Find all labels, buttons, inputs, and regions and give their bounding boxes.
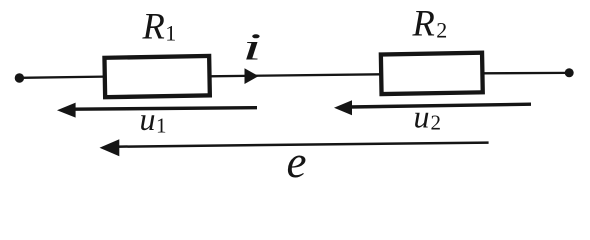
svg-text:R1: R1 xyxy=(142,6,177,47)
node A (left terminal dot) xyxy=(15,73,24,82)
wire (R1 to R2 with current direction) xyxy=(209,74,380,76)
resistor R2 xyxy=(381,53,483,94)
wire (R2 to right terminal) xyxy=(482,72,567,75)
svg-text:u2: u2 xyxy=(414,98,442,134)
svg-text:u1: u1 xyxy=(140,101,167,137)
voltage arrow u2 (head) xyxy=(334,100,352,115)
resistor R1 xyxy=(104,56,209,97)
node B (right terminal dot) xyxy=(565,68,574,77)
voltage arrow u1 (head) xyxy=(57,103,76,118)
voltage arrow u1 (shaft) xyxy=(72,108,257,110)
voltage arrow e (head) xyxy=(100,139,120,156)
svg-text:i: i xyxy=(242,27,262,69)
voltage arrow e (shaft) xyxy=(115,143,489,147)
voltage arrow u2 (shaft) xyxy=(349,104,531,107)
svg-text:R2: R2 xyxy=(412,3,448,44)
svg-text:e: e xyxy=(287,137,307,187)
current arrowhead i xyxy=(245,68,259,84)
wire (left terminal to R1) xyxy=(21,77,104,78)
